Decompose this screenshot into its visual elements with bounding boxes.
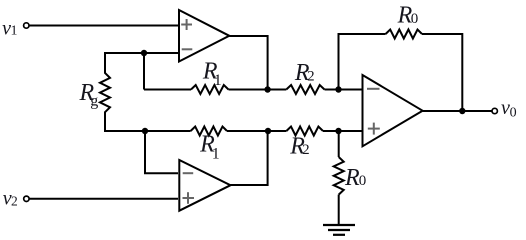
svg-text:1: 1	[214, 72, 222, 89]
svg-text:g: g	[90, 93, 98, 110]
node junction dot C	[335, 86, 341, 92]
resistor R1 (bottom)	[191, 127, 227, 136]
label R1 (bottom)	[199, 132, 220, 163]
svg-text:0: 0	[510, 105, 517, 120]
svg-text:2: 2	[11, 193, 18, 208]
label R0 (feedback)	[397, 3, 419, 29]
node junction dot F	[265, 128, 271, 134]
label R2 (top)	[294, 60, 315, 86]
wire v2 to op-amp U3 + input	[29, 198, 178, 200]
node junction dot D (output node)	[459, 108, 465, 114]
wire stub from node E down to U3 - input	[145, 131, 178, 173]
wire R0 feedback to output node	[422, 34, 462, 111]
wire R2 top right lead to U2 - input	[325, 89, 363, 91]
op-amp U2	[363, 75, 423, 146]
wire v1 to op-amp U1 + input	[29, 25, 178, 27]
wire R1 top left lead	[144, 89, 191, 91]
svg-text:R: R	[344, 165, 360, 191]
wire U3 output up to node F	[231, 131, 268, 185]
wire feedback up from node C	[339, 34, 386, 90]
label v2	[3, 187, 18, 209]
wire U2 output	[423, 110, 492, 112]
op-amp U1	[179, 10, 229, 62]
op-amp U3	[179, 160, 230, 211]
wire U1 output	[229, 36, 267, 90]
label Rg	[79, 80, 99, 110]
resistor Rg	[100, 53, 110, 130]
node v2 input terminal	[24, 196, 29, 201]
node v1 input terminal	[24, 23, 29, 28]
resistor R2 (bottom)	[286, 127, 323, 136]
pin - of U1	[182, 48, 193, 50]
label R2 (bottom)	[289, 133, 309, 159]
wire U1 - input row	[104, 52, 178, 54]
label v0	[501, 97, 517, 120]
wire R2 bottom right lead to U2 + input	[323, 130, 363, 132]
svg-text:1: 1	[11, 24, 18, 39]
node junction dot G	[335, 128, 341, 134]
svg-text:2: 2	[307, 68, 315, 84]
pin + of U1	[181, 19, 192, 30]
resistor R0 (to ground)	[334, 157, 344, 195]
wire R0 bottom lead to ground	[338, 195, 340, 225]
label v1	[2, 18, 17, 40]
wire R1 bottom right lead	[227, 130, 286, 132]
pin + of U2	[368, 123, 380, 135]
node junction dot B	[264, 86, 270, 92]
svg-text:0: 0	[411, 11, 419, 27]
svg-text:2: 2	[302, 142, 310, 158]
wire R0 vertical top lead	[338, 131, 340, 157]
node junction dot A	[141, 50, 147, 56]
node v0 output terminal	[492, 108, 497, 113]
node junction dot E	[142, 128, 148, 134]
svg-text:0: 0	[359, 173, 367, 189]
wire R1 top right lead	[229, 89, 268, 91]
resistor R0 (feedback)	[386, 30, 422, 39]
label R0 (to ground)	[344, 165, 366, 191]
wire bottom row left (Rg bottom to R1 bottom)	[104, 130, 191, 132]
pin - of U2	[367, 88, 380, 90]
resistor R2 (top)	[286, 85, 324, 94]
pin + of U3	[183, 192, 195, 204]
svg-text:1: 1	[212, 146, 220, 163]
pin - of U3	[183, 172, 194, 174]
ground	[323, 225, 355, 235]
label R1 (top)	[202, 59, 222, 89]
resistor R1 (top)	[191, 85, 229, 94]
wire junction stub from - row down to R1 top row	[143, 53, 145, 90]
wire R2 top left lead	[268, 89, 287, 91]
